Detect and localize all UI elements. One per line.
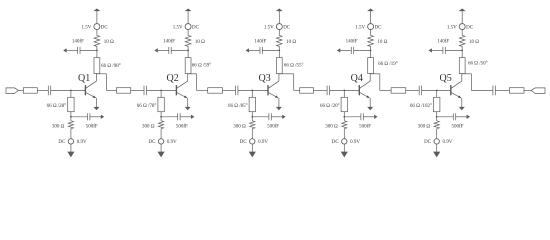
- wire: [524, 89, 531, 91]
- transmission line TLin: [23, 88, 37, 94]
- wire: [96, 29, 98, 34]
- ground (right arrow): [467, 115, 470, 119]
- svg-text:66 Ω /85°: 66 Ω /85°: [228, 104, 248, 109]
- wire: [461, 11, 463, 24]
- svg-text:140fF: 140fF: [437, 39, 449, 44]
- wire: [495, 89, 509, 91]
- wire: [445, 49, 462, 51]
- wire: [436, 144, 438, 152]
- capacitor Cout: [492, 86, 494, 96]
- svg-text:10 Ω: 10 Ω: [377, 40, 387, 45]
- wire: [96, 48, 98, 58]
- svg-text:66 Ω /20°: 66 Ω /20°: [320, 104, 340, 109]
- svg-text:1.5V: 1.5V: [82, 25, 92, 30]
- DC source V3b 0.9V: [250, 139, 255, 144]
- svg-text:10 Ω: 10 Ω: [469, 40, 479, 45]
- wire (collector net): [370, 73, 372, 75]
- wire (emitter): [278, 98, 280, 107]
- wire: [340, 49, 351, 51]
- ground (emitter): [367, 107, 373, 110]
- node: bypass tap: [187, 50, 189, 52]
- wire: [406, 89, 420, 91]
- wire: [187, 29, 189, 34]
- node: bypass tap: [70, 116, 72, 118]
- supply arrow (+1.5V rail) stage 2: [185, 9, 192, 12]
- node: base: [343, 90, 345, 92]
- supply arrow (+1.5V rail) stage 4: [367, 9, 374, 12]
- svg-text:DC: DC: [283, 25, 291, 30]
- wire (interstage): [106, 89, 116, 91]
- svg-text:0.9V: 0.9V: [443, 140, 453, 145]
- node: base: [70, 90, 72, 92]
- capacitor Cc2 (coupling): [235, 86, 237, 96]
- transmission line TLs4 (series): [391, 88, 406, 94]
- ground (right arrow): [191, 115, 194, 119]
- ground: [158, 152, 165, 158]
- svg-text:Q1: Q1: [78, 73, 90, 84]
- wire: [187, 11, 189, 24]
- wire (base stub): [251, 90, 253, 97]
- wire: [370, 29, 372, 34]
- svg-text:300 Ω: 300 Ω: [325, 124, 338, 129]
- wire: [251, 130, 253, 139]
- wire: [70, 144, 72, 152]
- wire: [96, 11, 98, 24]
- capacitor C1a 140fF: [77, 47, 79, 54]
- wire (collector net): [187, 73, 189, 75]
- svg-text:500fF: 500fF: [86, 124, 98, 129]
- wire: [70, 112, 72, 120]
- wire: [432, 49, 443, 51]
- wire: [461, 29, 463, 34]
- transmission line TL4t (collector stub): [368, 58, 374, 74]
- supply arrow (+1.5V rail) stage 5: [459, 9, 466, 12]
- wire: [370, 11, 372, 24]
- wire: [160, 130, 162, 139]
- wire: [313, 89, 327, 91]
- ground (left arrow): [246, 48, 249, 52]
- transistor Q2: [176, 74, 187, 98]
- wire: [160, 144, 162, 152]
- svg-text:DC: DC: [192, 25, 200, 30]
- wire: [363, 116, 374, 118]
- wire: [370, 48, 372, 58]
- svg-text:500fF: 500fF: [176, 124, 188, 129]
- ground (left arrow): [337, 48, 340, 52]
- wire: [187, 48, 189, 58]
- wire: [71, 116, 88, 118]
- emitter arrowhead Q4: [366, 95, 369, 98]
- svg-text:0.9V: 0.9V: [77, 140, 87, 145]
- svg-text:1.5V: 1.5V: [447, 25, 457, 30]
- emitter arrowhead Q1: [93, 95, 96, 98]
- wire: [456, 116, 467, 118]
- svg-text:66 Ω /55°: 66 Ω /55°: [284, 64, 304, 69]
- wire: [251, 144, 253, 152]
- wire (emitter): [369, 98, 371, 107]
- ground: [433, 152, 440, 158]
- emitter arrowhead Q3: [275, 95, 278, 98]
- capacitor C4a 140fF: [350, 47, 352, 54]
- transmission line TL2t (collector stub): [185, 58, 191, 74]
- svg-text:Q2: Q2: [167, 73, 179, 84]
- wire: [330, 89, 359, 91]
- svg-text:DC: DC: [240, 140, 248, 145]
- resistor R3b 300Ω: [250, 120, 255, 130]
- svg-text:500fF: 500fF: [452, 124, 464, 129]
- svg-text:DC: DC: [332, 140, 340, 145]
- capacitor Cc3 (coupling): [326, 86, 328, 96]
- svg-text:66 Ω /19°: 66 Ω /19°: [378, 62, 398, 67]
- wire: [238, 89, 268, 91]
- resistor R2a 10Ω: [185, 34, 191, 47]
- capacitor C3b 500fF: [268, 113, 270, 120]
- ground (emitter): [94, 107, 100, 110]
- wire: [461, 48, 463, 58]
- node: bypass tap: [343, 116, 345, 118]
- svg-text:DC: DC: [149, 140, 157, 145]
- node: bypass tap: [461, 50, 463, 52]
- capacitor C1b 500fF: [87, 113, 89, 120]
- transmission line TL5b (base stub): [434, 97, 440, 111]
- ground (emitter): [459, 107, 465, 110]
- wire: [262, 49, 279, 51]
- resistor R3a 10Ω: [277, 34, 283, 47]
- node: base: [160, 90, 162, 92]
- wire: [437, 116, 454, 118]
- wire: [180, 116, 191, 118]
- ground (right arrow): [282, 115, 285, 119]
- svg-text:66 Ω /102°: 66 Ω /102°: [410, 104, 432, 109]
- svg-text:DC: DC: [424, 140, 432, 145]
- transmission line TLs1 (series): [117, 88, 131, 94]
- supply arrow (+1.5V rail) stage 3: [276, 9, 283, 12]
- wire (interstage): [294, 89, 300, 91]
- wire (base stub): [343, 90, 345, 97]
- wire: [80, 49, 97, 51]
- ground (emitter): [185, 107, 191, 110]
- svg-text:140fF: 140fF: [72, 39, 84, 44]
- wire: [161, 116, 178, 118]
- wire: [67, 49, 78, 51]
- svg-text:300 Ω: 300 Ω: [142, 124, 155, 129]
- wire: [131, 89, 144, 91]
- wire (base stub): [70, 90, 72, 97]
- node: bypass tap: [278, 50, 280, 52]
- capacitor C2a 140fF: [168, 47, 170, 54]
- wire (interstage): [197, 89, 208, 91]
- ground (left arrow): [63, 48, 66, 52]
- resistor R5b 300Ω: [434, 120, 439, 130]
- wire: [249, 49, 260, 51]
- DC source V2a 1.5V: [185, 24, 191, 30]
- wire: [171, 49, 188, 51]
- resistor R2b 300Ω: [159, 120, 164, 130]
- DC source V3a 1.5V: [276, 24, 282, 30]
- node: bypass tap: [96, 50, 98, 52]
- transistor Q4: [359, 74, 370, 98]
- svg-text:1.5V: 1.5V: [173, 25, 183, 30]
- svg-text:Q3: Q3: [259, 73, 271, 84]
- wire (base stub): [436, 90, 438, 97]
- capacitor C5b 500fF: [452, 113, 454, 120]
- wire: [278, 29, 280, 34]
- capacitor Cc1 (coupling): [143, 86, 145, 96]
- svg-text:Q4: Q4: [351, 73, 363, 84]
- resistor R5a 10Ω: [459, 34, 465, 47]
- DC source V4b 0.9V: [342, 139, 347, 144]
- capacitor C5a 140fF: [442, 47, 444, 54]
- wire: [51, 89, 85, 91]
- wire: [354, 49, 371, 51]
- svg-text:10 Ω: 10 Ω: [195, 40, 205, 45]
- node: bypass tap: [251, 116, 253, 118]
- node: base: [251, 90, 253, 92]
- ground: [341, 152, 348, 158]
- wire: [223, 89, 236, 91]
- wire: [251, 112, 253, 120]
- wire: [436, 130, 438, 139]
- wire: [343, 130, 345, 139]
- wire: [278, 48, 280, 58]
- transmission line TLs3 (series): [300, 88, 314, 94]
- wire: [146, 89, 176, 91]
- resistor R1a 10Ω: [94, 34, 100, 47]
- svg-text:0.9V: 0.9V: [350, 140, 360, 145]
- transmission line TL1t (collector stub): [94, 58, 100, 74]
- capacitor C3a 140fF: [259, 47, 261, 54]
- svg-text:300 Ω: 300 Ω: [418, 124, 431, 129]
- wire: [90, 116, 101, 118]
- svg-text:66 Ω /78°: 66 Ω /78°: [137, 104, 157, 109]
- wire: [278, 11, 280, 24]
- svg-text:66 Ω /28°: 66 Ω /28°: [47, 104, 67, 109]
- svg-text:500fF: 500fF: [359, 124, 371, 129]
- wire: [271, 116, 282, 118]
- transmission line TL3b (base stub): [249, 97, 255, 111]
- wire (emitter): [96, 98, 98, 107]
- svg-text:0.9V: 0.9V: [167, 140, 177, 145]
- svg-text:10 Ω: 10 Ω: [286, 40, 296, 45]
- svg-text:500fF: 500fF: [267, 124, 279, 129]
- wire (emitter): [461, 98, 463, 107]
- ground (emitter): [276, 107, 282, 110]
- emitter arrowhead Q2: [184, 95, 187, 98]
- capacitor Cc4 (coupling): [418, 86, 420, 96]
- svg-text:140fF: 140fF: [163, 39, 175, 44]
- wire: [343, 112, 345, 120]
- resistor R4b 300Ω: [342, 120, 347, 130]
- ground (left arrow): [154, 48, 157, 52]
- transistor Q1: [85, 74, 96, 98]
- wire: [252, 116, 269, 118]
- node: bypass tap: [370, 50, 372, 52]
- svg-text:10 Ω: 10 Ω: [104, 40, 114, 45]
- wire (interstage): [380, 89, 391, 91]
- wire: [19, 89, 24, 91]
- svg-text:DC: DC: [101, 25, 109, 30]
- wire: [422, 89, 451, 91]
- DC source V1b 0.9V: [68, 139, 73, 144]
- wire (collector net): [278, 73, 280, 75]
- wire: [343, 144, 345, 152]
- DC source V2b 0.9V: [158, 139, 163, 144]
- svg-text:140fF: 140fF: [346, 39, 358, 44]
- DC source V1a 1.5V: [94, 24, 100, 30]
- port P2 (output): [531, 88, 545, 94]
- svg-text:300 Ω: 300 Ω: [233, 124, 246, 129]
- capacitor Cin: [47, 86, 49, 96]
- transistor Q5: [451, 74, 462, 98]
- svg-text:66 Ω /59°: 66 Ω /59°: [192, 63, 212, 68]
- node: bypass tap: [436, 116, 438, 118]
- wire (collector net): [461, 73, 463, 75]
- wire: [471, 89, 493, 91]
- svg-text:66 Ω /98°: 66 Ω /98°: [101, 64, 121, 69]
- emitter arrowhead Q5: [458, 95, 461, 98]
- ground: [249, 152, 256, 158]
- resistor R4a 10Ω: [368, 34, 374, 47]
- node: bypass tap: [160, 116, 162, 118]
- wire: [37, 89, 48, 91]
- capacitor C2b 500fF: [177, 113, 179, 120]
- svg-text:Q5: Q5: [440, 73, 452, 84]
- ground: [67, 152, 74, 158]
- transmission line TL5t (collector stub): [459, 58, 465, 74]
- svg-text:1.5V: 1.5V: [264, 25, 274, 30]
- wire: [436, 112, 438, 120]
- svg-text:DC: DC: [58, 140, 66, 145]
- node: base: [436, 90, 438, 92]
- wire: [160, 112, 162, 120]
- transistor Q3: [268, 74, 279, 98]
- wire (emitter): [187, 98, 189, 107]
- svg-text:DC: DC: [466, 25, 474, 30]
- capacitor C4b 500fF: [360, 113, 362, 120]
- transmission line TLs2 (series): [208, 88, 223, 94]
- wire: [70, 130, 72, 139]
- ground (right arrow): [101, 115, 104, 119]
- wire (base stub): [160, 90, 162, 97]
- DC source V4a 1.5V: [368, 24, 374, 30]
- DC source V5b 0.9V: [434, 139, 439, 144]
- transmission line TL1b (base stub): [68, 97, 74, 111]
- svg-text:66 Ω /50°: 66 Ω /50°: [468, 62, 488, 67]
- wire: [344, 116, 361, 118]
- transmission line TL3t (collector stub): [276, 58, 282, 74]
- svg-text:300 Ω: 300 Ω: [52, 124, 65, 129]
- wire (collector net): [96, 73, 98, 75]
- transmission line TLout: [509, 88, 524, 94]
- ground (right arrow): [374, 115, 377, 119]
- port P1 (input): [6, 88, 19, 94]
- svg-text:DC: DC: [375, 25, 383, 30]
- transmission line TL4b (base stub): [341, 97, 347, 111]
- transmission line TL2b (base stub): [158, 97, 164, 111]
- svg-text:140fF: 140fF: [254, 39, 266, 44]
- ground (left arrow): [429, 48, 432, 52]
- svg-text:0.9V: 0.9V: [258, 140, 268, 145]
- DC source V5a 1.5V: [459, 24, 465, 30]
- svg-text:1.5V: 1.5V: [355, 25, 365, 30]
- resistor R1b 300Ω: [68, 120, 73, 130]
- wire: [158, 49, 169, 51]
- supply arrow (+1.5V rail) stage 1: [93, 9, 100, 12]
